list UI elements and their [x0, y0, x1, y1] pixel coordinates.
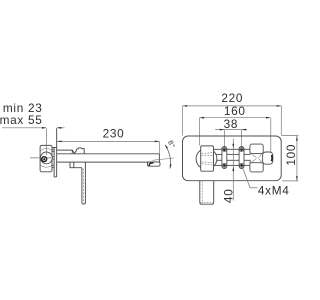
lever boss on top of spout: [57, 148, 85, 154]
svg-text:40: 40: [222, 189, 236, 204]
arrow 160 right: [266, 117, 271, 119]
svg-text:220: 220: [221, 91, 243, 105]
extension line 220 right: [280, 106, 282, 136]
dimension line 160: [200, 117, 271, 119]
leader line 4xM4: [243, 167, 258, 188]
arrow 40 top (pointing down): [232, 144, 234, 149]
spout front: top lobe: [250, 144, 263, 153]
wall plate (front): [183, 136, 282, 181]
pipe stub middle: [52, 156, 54, 159]
in-wall body box: [40, 145, 52, 171]
dimension line 230: [57, 140, 159, 142]
extension line 220 left: [182, 106, 184, 136]
arrow 100 top: [296, 136, 298, 141]
svg-text:max 55: max 55: [0, 113, 43, 127]
horizontal centerline: [30, 157, 52, 159]
lower connecting bar: [214, 160, 251, 165]
8 degree swivel arc: [165, 145, 170, 169]
arrow 220 right: [277, 105, 282, 107]
spout front: converging facet lines: [250, 152, 263, 164]
dimension line min/max left segment: [2, 127, 65, 129]
dimension line 220: [183, 105, 282, 107]
arrow 230 left: [57, 141, 62, 143]
cartridge circle: [41, 152, 53, 164]
extension line 160 left: [199, 118, 201, 146]
svg-text:100: 100: [284, 144, 298, 166]
screw M4 top-right: [240, 148, 244, 152]
pipe stub upper (body to plate): [52, 150, 54, 152]
wall plate (side, edge-on): [52, 128, 57, 177]
extension segments inside plate: [200, 136, 271, 152]
aerator under spout tip: [147, 162, 160, 166]
screw M4 bottom-right: [240, 163, 244, 167]
upper connecting bar: [214, 149, 251, 154]
arc arrow bottom: [170, 164, 172, 168]
extension line at body centerline x=46.4: [45, 128, 47, 155]
svg-text:4xM4: 4xM4: [258, 184, 290, 198]
large concentric arc (clipped by body): [37, 149, 56, 168]
aerator dark swirl: [149, 163, 153, 165]
arrow min/max left (pointing right): [42, 127, 47, 129]
arrow 38 left (outside, pointing right): [220, 129, 225, 131]
extension line 100 bottom: [282, 180, 298, 182]
screw hex socket: [43, 158, 45, 160]
svg-text:38: 38: [224, 117, 239, 131]
extension line 38 left: [223, 130, 225, 147]
spout outlet dark slot: [270, 155, 273, 161]
arrow 220 left: [183, 105, 188, 107]
pipe stub lower: [52, 165, 54, 167]
dimension line 38: [215, 129, 247, 131]
dimension line 40 (vertical, center): [232, 139, 234, 201]
extension line 100 top: [282, 135, 298, 137]
under-spout block: [70, 162, 82, 168]
screw post right: [239, 147, 244, 169]
spout front: bottom lobe: [250, 163, 263, 172]
screw M4 bottom-left: [222, 163, 226, 167]
screw head ring: [42, 157, 47, 162]
handle lever (side, hanging down): [82, 162, 86, 204]
dimension line 100 (vertical, right): [296, 136, 298, 181]
centerline segment inside body: [45, 146, 47, 156]
arrow 40 bottom (pointing up): [232, 166, 234, 171]
tilt indication line: [153, 158, 174, 160]
screw post left: [222, 147, 227, 169]
handle knob circle (front): [196, 148, 217, 169]
extension line 160 right: [270, 118, 272, 136]
handle lever end-on rectangle: [201, 146, 214, 171]
spout front: right piece: [263, 152, 273, 164]
extension line 38 right: [241, 130, 243, 147]
spout (side): [57, 154, 160, 162]
arrow 160 left: [200, 117, 205, 119]
svg-text:230: 230: [103, 127, 125, 141]
extension line at spout tip: [158, 142, 160, 154]
arc arrow top: [165, 145, 168, 149]
handle below: dashed inner lines: [201, 181, 213, 203]
arrow 38 right (outside, pointing left): [242, 129, 247, 131]
handle lever below plate (front): [200, 181, 214, 204]
handle inner dashed line: [83, 169, 85, 203]
arrow 230 right: [155, 141, 160, 143]
lever hidden dashed lines: [202, 153, 214, 166]
arrow min/max right (pointing left): [57, 127, 62, 129]
screw M4 top-left: [222, 148, 226, 152]
arrow 100 bottom: [296, 176, 298, 181]
